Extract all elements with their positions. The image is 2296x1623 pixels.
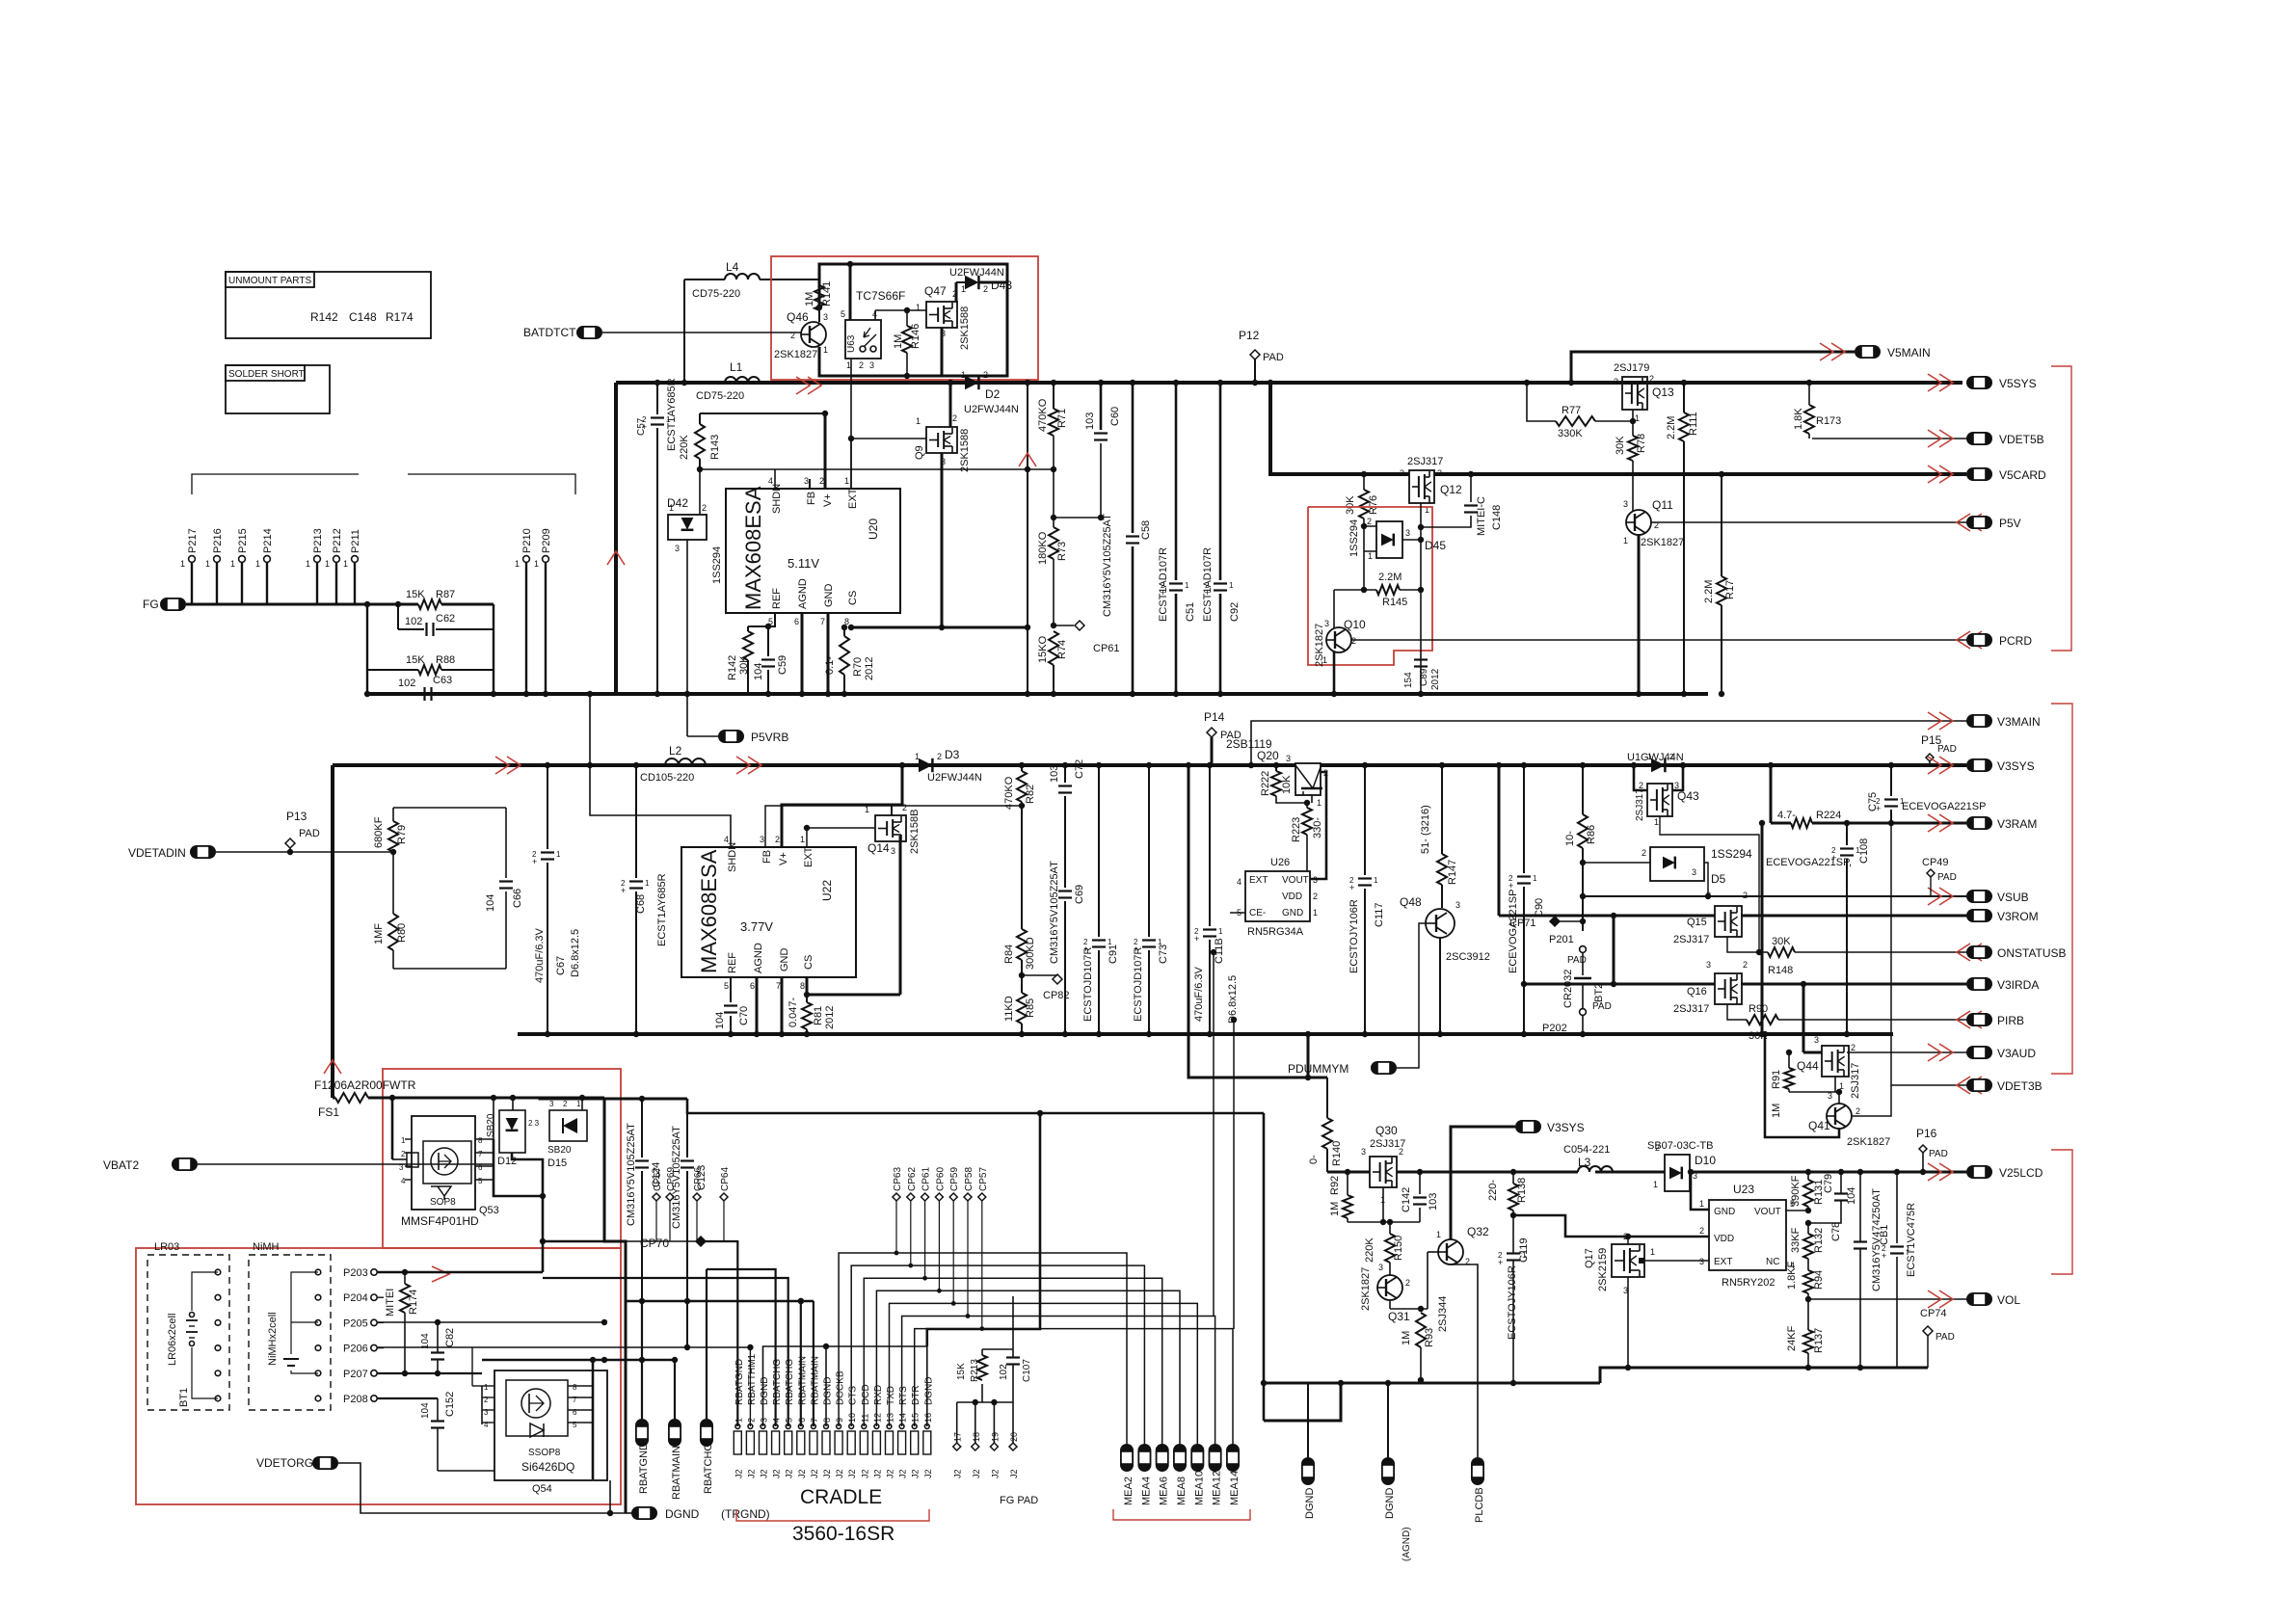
svg-text:2SC3912: 2SC3912 bbox=[1446, 951, 1490, 963]
svg-text:RBATTHM1: RBATTHM1 bbox=[747, 1353, 758, 1405]
wire mid left rail x345 bbox=[331, 765, 334, 1098]
node PDUMMYM bbox=[1371, 1061, 1397, 1075]
pin J2-15 DTR bbox=[911, 1431, 919, 1454]
svg-text:MMSF4P01HD: MMSF4P01HD bbox=[401, 1214, 479, 1228]
diode D12 SB20 bbox=[512, 1098, 514, 1110]
svg-text:ECEVOGA221SP: ECEVOGA221SP bbox=[1902, 801, 1986, 812]
capacitor C124 CM316Y5V105Z25AT bbox=[641, 1099, 643, 1157]
svg-text:3: 3 bbox=[891, 846, 895, 856]
svg-text:1: 1 bbox=[1374, 876, 1378, 885]
svg-text:5: 5 bbox=[724, 981, 729, 991]
svg-text:SOP8: SOP8 bbox=[430, 1197, 456, 1208]
node DGND bbox=[1301, 1457, 1315, 1485]
svg-text:33KF: 33KF bbox=[1790, 1227, 1802, 1253]
svg-text:2: 2 bbox=[1642, 848, 1646, 858]
svg-text:C107: C107 bbox=[1022, 1359, 1032, 1382]
svg-text:DCD: DCD bbox=[861, 1384, 871, 1405]
inductor L2 bbox=[665, 758, 706, 765]
svg-text:L1: L1 bbox=[730, 360, 743, 374]
svg-text:U22: U22 bbox=[820, 880, 834, 901]
wire RBATGND pad column bbox=[641, 1301, 643, 1419]
svg-text:8: 8 bbox=[800, 981, 805, 991]
svg-text:104: 104 bbox=[420, 1402, 431, 1419]
svg-text:103: 103 bbox=[1428, 1193, 1439, 1211]
svg-text:3: 3 bbox=[1692, 867, 1696, 877]
svg-text:EXT: EXT bbox=[803, 846, 814, 867]
svg-text:CRADLE: CRADLE bbox=[800, 1486, 882, 1508]
svg-text:D43: D43 bbox=[991, 279, 1012, 292]
svg-text:3: 3 bbox=[1286, 754, 1291, 763]
svg-text:1M: 1M bbox=[1771, 1104, 1782, 1118]
svg-text:R222: R222 bbox=[1260, 771, 1271, 796]
svg-text:1: 1 bbox=[325, 559, 330, 569]
svg-text:1SS294: 1SS294 bbox=[711, 546, 723, 584]
svg-text:5: 5 bbox=[478, 1177, 483, 1185]
svg-text:2012: 2012 bbox=[1430, 668, 1441, 690]
diode D42 1SS294 bbox=[699, 469, 701, 515]
capacitor C81 ECST1VC475R bbox=[1896, 1172, 1898, 1243]
capacitor C123 CM316Y5V105Z25AT bbox=[686, 1113, 688, 1157]
svg-text:Q41: Q41 bbox=[1808, 1119, 1830, 1132]
svg-text:P208: P208 bbox=[343, 1394, 368, 1405]
svg-text:R174: R174 bbox=[408, 1290, 419, 1315]
svg-text:7: 7 bbox=[478, 1150, 483, 1158]
pin P209 bbox=[543, 556, 549, 563]
svg-text:MEA12: MEA12 bbox=[1212, 1471, 1223, 1505]
wire VDD feed bbox=[1513, 1215, 1709, 1237]
svg-text:CB1: CB1 bbox=[1879, 1225, 1890, 1245]
wire cradle pin11 to MEA6 bbox=[864, 1278, 1161, 1444]
svg-text:13: 13 bbox=[886, 1413, 895, 1423]
svg-text:V3ROM: V3ROM bbox=[1997, 910, 2039, 923]
capacitor C59 bbox=[767, 626, 769, 656]
resistor R81 0.047 bbox=[806, 995, 808, 1002]
wire GND pin7 bbox=[827, 613, 830, 694]
wire Q54 right pins bbox=[592, 1360, 595, 1479]
wire VOL bbox=[1808, 1298, 1966, 1300]
bracket over pins bbox=[192, 474, 359, 494]
svg-text:L2: L2 bbox=[669, 744, 682, 758]
wire Q43 legs bbox=[1634, 765, 1647, 790]
node MEA2 bbox=[1120, 1444, 1134, 1472]
diode D5 1SS294 bbox=[1583, 862, 1650, 864]
svg-text:V5MAIN: V5MAIN bbox=[1887, 346, 1931, 359]
svg-text:RN5RY202: RN5RY202 bbox=[1722, 1277, 1775, 1289]
svg-text:8: 8 bbox=[478, 1136, 483, 1145]
svg-text:D6.8x12.5: D6.8x12.5 bbox=[1227, 975, 1239, 1024]
resistor R111 2.2M bbox=[1683, 383, 1685, 412]
wire VDET3B bbox=[1852, 1085, 1966, 1116]
diode D2 bbox=[965, 376, 978, 389]
svg-text:J2: J2 bbox=[746, 1469, 756, 1478]
svg-text:BT1: BT1 bbox=[178, 1388, 190, 1407]
wire RBATMAIN pad column bbox=[674, 1360, 676, 1419]
svg-text:MEA2: MEA2 bbox=[1123, 1477, 1135, 1505]
svg-text:PAD: PAD bbox=[1263, 352, 1284, 363]
svg-text:ECEVOGA221SP: ECEVOGA221SP bbox=[1508, 890, 1519, 973]
svg-text:1M: 1M bbox=[1329, 1202, 1341, 1216]
resistor R131 390KF bbox=[1807, 1172, 1809, 1180]
svg-text:7: 7 bbox=[820, 617, 825, 626]
svg-text:1: 1 bbox=[844, 476, 849, 486]
svg-text:R71: R71 bbox=[1056, 409, 1068, 428]
svg-text:103: 103 bbox=[1084, 412, 1096, 430]
switch U63 TC7S66F bbox=[849, 264, 852, 320]
svg-text:CP60: CP60 bbox=[935, 1167, 946, 1191]
svg-text:CP49: CP49 bbox=[1922, 857, 1949, 868]
diode D15 SB20 bbox=[581, 1098, 583, 1110]
svg-text:CP69: CP69 bbox=[666, 1167, 677, 1191]
svg-text:CP70: CP70 bbox=[640, 1237, 669, 1250]
resistor R147 51 bbox=[1441, 765, 1443, 854]
svg-text:RTS: RTS bbox=[898, 1386, 909, 1405]
svg-text:VDETORG: VDETORG bbox=[256, 1456, 313, 1470]
capacitor C91 ECSTOJD107R bbox=[1098, 765, 1100, 937]
svg-text:R137: R137 bbox=[1813, 1328, 1825, 1353]
svg-text:Q30: Q30 bbox=[1375, 1124, 1398, 1137]
svg-text:ECST1AD107R: ECST1AD107R bbox=[1158, 547, 1169, 622]
capacitor C75 ECEVOGA221SP bbox=[1890, 765, 1892, 796]
svg-text:220-: 220- bbox=[1487, 1180, 1499, 1201]
svg-text:PAD: PAD bbox=[1936, 1332, 1955, 1343]
node VSUB bbox=[1966, 890, 1992, 903]
diode D4 U1GWJ44N bbox=[1651, 758, 1665, 772]
node RBATGND bbox=[635, 1419, 649, 1447]
pin J2-10 CTS bbox=[847, 1431, 855, 1454]
node PIRB bbox=[1957, 1011, 1970, 1028]
inductor L3 bbox=[1578, 1166, 1613, 1172]
svg-text:154: 154 bbox=[1403, 672, 1414, 688]
svg-text:GND: GND bbox=[823, 584, 835, 608]
node V3RAM bbox=[1939, 814, 1953, 832]
svg-text:3560-16SR: 3560-16SR bbox=[792, 1523, 894, 1545]
svg-text:V25LCD: V25LCD bbox=[1999, 1166, 2043, 1180]
svg-text:1.8K: 1.8K bbox=[1793, 408, 1804, 430]
svg-text:FB: FB bbox=[806, 492, 817, 505]
svg-text:2: 2 bbox=[746, 1418, 756, 1423]
svg-text:J2: J2 bbox=[953, 1469, 963, 1478]
wire cradle pin12 to MEA8 bbox=[876, 1290, 1180, 1444]
svg-text:2: 2 bbox=[1639, 781, 1643, 790]
resistor R73 180KO bbox=[1049, 527, 1058, 559]
svg-text:CP64: CP64 bbox=[720, 1167, 731, 1191]
wire V+ feed bbox=[824, 413, 827, 489]
svg-text:J2: J2 bbox=[772, 1469, 782, 1478]
diode D10 SB07-03C-TB bbox=[1665, 1155, 1690, 1191]
svg-text:J2: J2 bbox=[785, 1469, 794, 1478]
wire top ground bus y722 bbox=[367, 692, 1708, 696]
svg-text:CS: CS bbox=[847, 591, 859, 605]
svg-text:10-: 10- bbox=[1564, 831, 1576, 846]
svg-text:ECSTOJY106R: ECSTOJY106R bbox=[1348, 899, 1360, 973]
svg-text:1: 1 bbox=[645, 879, 650, 888]
resistor R132 33KF bbox=[1803, 1234, 1813, 1259]
svg-text:1: 1 bbox=[915, 752, 920, 761]
svg-text:Si6426DQ: Si6426DQ bbox=[521, 1460, 574, 1474]
svg-text:U2FWJ44N: U2FWJ44N bbox=[927, 772, 982, 784]
node MEA14 bbox=[1226, 1444, 1240, 1472]
svg-text:3: 3 bbox=[1674, 781, 1679, 790]
transistor Q13 2SJ179 bbox=[1622, 377, 1647, 410]
wire cradle RBATMAIN pins 6,7 bbox=[800, 1301, 802, 1426]
node P202 PAD bbox=[1580, 1009, 1587, 1016]
svg-text:V3AUD: V3AUD bbox=[1997, 1047, 2036, 1060]
svg-text:P212: P212 bbox=[332, 528, 343, 553]
svg-text:1: 1 bbox=[800, 835, 805, 844]
svg-text:EXT: EXT bbox=[847, 488, 859, 509]
svg-text:VOUT: VOUT bbox=[1282, 875, 1309, 886]
svg-text:ECST1AY685R: ECST1AY685R bbox=[666, 378, 678, 451]
svg-text:3: 3 bbox=[1706, 960, 1711, 970]
pin P215 bbox=[239, 556, 246, 563]
wire cradle pin2 bbox=[749, 1347, 751, 1426]
svg-text:2: 2 bbox=[563, 1100, 568, 1108]
svg-text:1: 1 bbox=[534, 559, 539, 569]
svg-text:C73: C73 bbox=[1158, 945, 1169, 964]
resistor R137 24KF bbox=[1803, 1330, 1813, 1353]
capacitor C142 103 bbox=[1419, 1172, 1421, 1194]
svg-text:CP82: CP82 bbox=[1043, 990, 1070, 1001]
svg-text:2012: 2012 bbox=[864, 657, 875, 680]
resistor R140 bbox=[1326, 1078, 1328, 1118]
svg-text:MEA4: MEA4 bbox=[1140, 1477, 1152, 1505]
svg-text:2.2M: 2.2M bbox=[1666, 416, 1677, 439]
svg-text:2SJ317: 2SJ317 bbox=[1673, 1003, 1709, 1015]
svg-text:1SS294: 1SS294 bbox=[1711, 847, 1752, 861]
svg-text:(AGND): (AGND) bbox=[1402, 1527, 1412, 1561]
svg-text:C142: C142 bbox=[1401, 1187, 1412, 1212]
resistor R85 11KO bbox=[1017, 993, 1027, 1024]
svg-text:DGND: DGND bbox=[923, 1377, 934, 1405]
svg-text:J2: J2 bbox=[1009, 1469, 1019, 1478]
svg-text:C72: C72 bbox=[1074, 759, 1085, 779]
svg-text:V5CARD: V5CARD bbox=[1999, 468, 2046, 482]
wire Q32 gate bbox=[1427, 1252, 1428, 1309]
resistor R71 470KO bbox=[1053, 383, 1055, 409]
svg-text:51- (3216): 51- (3216) bbox=[1420, 805, 1431, 854]
svg-text:Q10: Q10 bbox=[1344, 618, 1366, 631]
svg-text:C117: C117 bbox=[1374, 903, 1385, 927]
svg-text:4: 4 bbox=[768, 476, 773, 486]
wire ONSTATUSB drop bbox=[1213, 952, 1215, 1317]
wire Q44 gate to Q41 bbox=[1789, 1091, 1839, 1093]
svg-text:1M: 1M bbox=[893, 334, 904, 349]
svg-text:2SK1827: 2SK1827 bbox=[774, 349, 817, 360]
wire Q20 base bbox=[1311, 795, 1313, 803]
svg-text:3: 3 bbox=[1361, 1147, 1366, 1157]
svg-text:390KF: 390KF bbox=[1790, 1175, 1802, 1207]
svg-text:D3: D3 bbox=[945, 748, 960, 761]
svg-text:1: 1 bbox=[205, 559, 210, 569]
svg-text:2: 2 bbox=[1399, 1147, 1403, 1157]
svg-text:C66: C66 bbox=[512, 889, 523, 908]
svg-text:PAD: PAD bbox=[1567, 955, 1587, 966]
svg-text:C78: C78 bbox=[1830, 1222, 1842, 1241]
svg-text:Q47: Q47 bbox=[924, 284, 947, 298]
battery BT2 CR2032 bbox=[1582, 953, 1584, 975]
node V3AUD bbox=[1939, 1044, 1953, 1061]
wire EXT pin bbox=[850, 439, 852, 489]
transistor Q44 2SJ317 bbox=[1822, 1046, 1849, 1077]
svg-text:1MF: 1MF bbox=[373, 923, 385, 945]
svg-text:P216: P216 bbox=[212, 528, 224, 553]
svg-text:J2: J2 bbox=[835, 1469, 844, 1478]
pin J2-13 TXD bbox=[886, 1431, 894, 1454]
svg-text:J2: J2 bbox=[810, 1469, 819, 1478]
wire thick y1411 bbox=[482, 1359, 675, 1362]
svg-text:R173: R173 bbox=[1816, 415, 1841, 427]
wire PLCDB bbox=[1451, 1264, 1478, 1457]
svg-text:Q15: Q15 bbox=[1687, 917, 1707, 928]
capacitor C68 ECST1AY685R bbox=[635, 765, 637, 878]
svg-text:C75: C75 bbox=[1867, 792, 1879, 811]
svg-text:ECEVOGA221SP,: ECEVOGA221SP, bbox=[1766, 857, 1852, 868]
svg-text:1: 1 bbox=[1322, 655, 1327, 665]
svg-text:P205: P205 bbox=[343, 1317, 368, 1329]
wire P203 row bbox=[378, 1271, 543, 1274]
wire gate node Q30 bbox=[1382, 1187, 1384, 1222]
svg-text:RBATCHG: RBATCHG bbox=[785, 1359, 795, 1405]
svg-text:R150: R150 bbox=[1393, 1236, 1404, 1261]
svg-text:1: 1 bbox=[1623, 536, 1628, 545]
svg-text:MEA14: MEA14 bbox=[1229, 1471, 1241, 1505]
capacitor C58 CM316Y5V105Z25AT bbox=[1132, 383, 1135, 533]
svg-text:MITEI: MITEI bbox=[385, 1289, 396, 1317]
svg-text:Q13: Q13 bbox=[1652, 386, 1674, 399]
svg-text:2SK158B: 2SK158B bbox=[909, 810, 921, 854]
wire REF C59 R142 bbox=[748, 613, 775, 626]
svg-text:C70: C70 bbox=[738, 1006, 750, 1025]
node MEA10 bbox=[1190, 1444, 1204, 1472]
svg-text:104: 104 bbox=[714, 1012, 726, 1029]
svg-text:+: + bbox=[621, 886, 626, 895]
svg-text:2: 2 bbox=[983, 370, 988, 380]
svg-text:30K: 30K bbox=[738, 655, 750, 675]
transistor Q11 2SK1827 bbox=[1626, 510, 1651, 535]
node PLCDB bbox=[1471, 1457, 1484, 1485]
svg-text:VBAT2: VBAT2 bbox=[103, 1158, 139, 1172]
wire V3IRDA rail bbox=[1524, 983, 1715, 986]
svg-text:R174: R174 bbox=[386, 310, 414, 324]
svg-text:FG PAD: FG PAD bbox=[1000, 1495, 1038, 1506]
capacitor C108 ECEVOGA221SP bbox=[1846, 823, 1848, 845]
svg-text:BT2: BT2 bbox=[1593, 983, 1605, 1002]
wire Q17 connections bbox=[1627, 1237, 1629, 1244]
node V5MAIN bbox=[1855, 345, 1881, 359]
svg-text:1: 1 bbox=[576, 1100, 581, 1108]
svg-text:R76: R76 bbox=[1368, 495, 1379, 515]
svg-text:2: 2 bbox=[1655, 1143, 1660, 1153]
svg-text:3: 3 bbox=[804, 476, 809, 486]
unmount-parts box bbox=[226, 272, 431, 338]
svg-text:2: 2 bbox=[859, 360, 864, 370]
node P5VRB bbox=[687, 735, 718, 737]
svg-text:P210: P210 bbox=[521, 528, 533, 553]
svg-text:R81: R81 bbox=[813, 1006, 824, 1025]
resistor R173 1.8K bbox=[1808, 383, 1810, 405]
svg-text:2SJ317: 2SJ317 bbox=[1407, 456, 1443, 467]
svg-text:220K: 220K bbox=[1364, 1237, 1375, 1263]
svg-text:1: 1 bbox=[343, 559, 348, 569]
svg-text:2SJ317: 2SJ317 bbox=[1850, 1063, 1861, 1099]
svg-text:D10: D10 bbox=[1695, 1154, 1716, 1167]
svg-text:2: 2 bbox=[1405, 1278, 1410, 1288]
resistor R145 2.2M bbox=[1363, 526, 1365, 590]
red highlight box Q53 area bbox=[383, 1069, 621, 1248]
svg-text:ONSTATUSB: ONSTATUSB bbox=[1997, 946, 2067, 960]
svg-text:MAX608ESA: MAX608ESA bbox=[741, 486, 765, 610]
capacitor C62 bbox=[398, 628, 424, 630]
pin P210 bbox=[523, 556, 530, 563]
capacitor C119 ECSTOJY106R bbox=[1507, 1252, 1520, 1254]
capacitor C69 CM316Y5V105Z25AT bbox=[1058, 890, 1072, 891]
svg-text:11: 11 bbox=[860, 1414, 869, 1423]
wire P208 row bbox=[378, 1397, 438, 1399]
svg-text:19: 19 bbox=[990, 1432, 1000, 1442]
svg-text:ECSTOJD107R: ECSTOJD107R bbox=[1133, 947, 1144, 1022]
svg-text:J2: J2 bbox=[898, 1469, 908, 1478]
resistor R146 bbox=[906, 310, 908, 326]
svg-text:SB20: SB20 bbox=[547, 1145, 572, 1156]
svg-text:R147: R147 bbox=[1447, 860, 1458, 885]
svg-text:CP71: CP71 bbox=[1509, 918, 1536, 929]
svg-text:PAD: PAD bbox=[299, 828, 320, 839]
svg-text:P202: P202 bbox=[1542, 1023, 1567, 1034]
red highlight box TC7S66F bbox=[771, 256, 1038, 380]
wire V3ROM rail bbox=[1498, 765, 1501, 916]
svg-text:C57: C57 bbox=[636, 417, 647, 436]
svg-text:1: 1 bbox=[306, 559, 310, 569]
transistor Q9 2SK1588 bbox=[926, 427, 957, 453]
svg-text:8: 8 bbox=[822, 1418, 832, 1423]
svg-text:J2: J2 bbox=[822, 1469, 832, 1478]
svg-text:+: + bbox=[1508, 881, 1513, 891]
svg-text:3: 3 bbox=[399, 1163, 404, 1172]
svg-text:3: 3 bbox=[1828, 1091, 1832, 1101]
capacitor C152 104 bbox=[437, 1398, 439, 1421]
svg-text:2012: 2012 bbox=[824, 1006, 836, 1029]
capacitor C118 470uF bbox=[1209, 765, 1211, 926]
svg-text:D6.8x12.5: D6.8x12.5 bbox=[570, 929, 581, 977]
resistor R80 1MF bbox=[388, 914, 398, 950]
svg-text:2: 2 bbox=[1367, 517, 1372, 526]
svg-text:1: 1 bbox=[1654, 817, 1659, 827]
svg-text:2SJ179: 2SJ179 bbox=[1614, 362, 1649, 374]
svg-text:10: 10 bbox=[847, 1413, 857, 1423]
ic U26 RN5RG34A bbox=[1245, 871, 1310, 921]
diode D43 bbox=[956, 281, 966, 283]
capacitor C60 103 bbox=[1100, 383, 1103, 430]
wire V3AUD bbox=[1847, 1051, 1966, 1053]
svg-text:2: 2 bbox=[983, 284, 988, 294]
red bracket right bottom bbox=[2051, 1150, 2072, 1274]
svg-text:3: 3 bbox=[1623, 499, 1628, 509]
svg-text:3: 3 bbox=[1324, 619, 1329, 628]
transistor Q48 2SC3912 bbox=[1426, 909, 1455, 938]
svg-text:10K: 10K bbox=[1281, 775, 1293, 794]
wire C152 to Q54 bbox=[438, 1470, 494, 1472]
resistor R94 1.8KF bbox=[1807, 1259, 1809, 1270]
node CP61 bbox=[1054, 625, 1074, 626]
svg-text:P207: P207 bbox=[343, 1369, 368, 1380]
svg-text:R138: R138 bbox=[1516, 1178, 1528, 1203]
wire Q15 gate R148 bbox=[1727, 937, 1768, 952]
svg-text:3: 3 bbox=[1455, 900, 1460, 910]
svg-text:D42: D42 bbox=[667, 496, 688, 510]
wire Q10 source bbox=[1333, 652, 1336, 694]
svg-text:FS1: FS1 bbox=[318, 1105, 339, 1119]
capacitor C79 104 bbox=[1840, 1172, 1842, 1193]
